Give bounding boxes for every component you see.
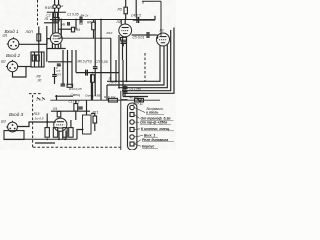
tube Л2 (119, 24, 132, 37)
wire anode row3 (51, 110, 90, 112)
wire sw c (41, 52, 43, 67)
wire legend leader 3 (134, 121, 139, 124)
wire trim b top (58, 0, 60, 5)
wire Л3 pin4 L (122, 30, 171, 91)
wire R6 down (93, 30, 95, 38)
underline legend 4 (141, 130, 174, 132)
wire bottom bus (4, 138, 77, 140)
resistor R16 (109, 98, 118, 102)
wire Л2 pin (122, 36, 124, 60)
wire HT bus top (47, 11, 66, 13)
wire aux y61 (48, 61, 72, 63)
wire R5 col up (125, 0, 127, 7)
wire C4 link (133, 19, 155, 21)
node bus2 k1 (54, 19, 56, 21)
wire cath return (55, 95, 73, 97)
wire Ra3 up (58, 110, 60, 112)
capacitor С4 (137, 17, 139, 23)
wire g3 V1 (60, 20, 62, 34)
wire block left rail (120, 91, 122, 150)
wire C4 corner (154, 16, 156, 20)
shield dashed line top (37, 0, 39, 26)
underline legend 3 (140, 124, 171, 126)
wire grid return (44, 22, 58, 24)
terminal pin 1 (130, 105, 134, 109)
wire Л4 pin b (62, 131, 64, 139)
capacitor С8 (61, 84, 66, 86)
node grid3 j (46, 121, 48, 123)
wire Л2 anode b (120, 20, 122, 25)
wire bias stub (56, 95, 58, 100)
wire grid riser (47, 39, 50, 45)
wire mid drop (75, 50, 77, 73)
wire cath drop a (62, 50, 64, 84)
wire mid v5 (122, 60, 124, 97)
wire block top (121, 99, 128, 101)
wire R7 row (58, 28, 72, 30)
capacitor С3 small (68, 22, 70, 26)
resistor R19v (74, 104, 78, 112)
wire legend leader 6 (134, 140, 141, 144)
wire R11 down (92, 82, 94, 100)
wire legend leader 7 (134, 144, 141, 146)
shield dashed line bottom-left (32, 95, 34, 149)
wire bus riser (77, 130, 84, 140)
resistor Rk4 (69, 128, 73, 138)
wire trim a (54, 8, 56, 12)
terminal pin 2 (130, 113, 134, 117)
wire cathode bus (47, 48, 66, 50)
capacitor С10 (123, 92, 128, 94)
resistor R11 (91, 75, 95, 83)
wire R5 col dn (125, 14, 127, 20)
wire cath V1 a (51, 44, 53, 49)
wire tr to РГ (91, 114, 95, 117)
wire Rk1 up (46, 114, 48, 128)
capacitor С aux (57, 64, 61, 66)
node bus j a (46, 138, 48, 140)
wire РГ dn (94, 123, 96, 131)
resistor R3 (37, 34, 41, 41)
wire Л3 pin5 L (126, 28, 174, 94)
resistor screen small (53, 18, 59, 22)
wire sw a (34, 52, 36, 67)
wire plate drop3 (94, 20, 96, 67)
wire drop C1fork (75, 20, 77, 30)
node rail j5 (115, 80, 117, 82)
transformer Тр1 (83, 115, 92, 134)
node bus2 k2 (57, 19, 59, 21)
wire legend leader 5 (134, 135, 143, 137)
wire Ш1 to grid (19, 43, 47, 45)
wire anode V1 (52, 12, 54, 33)
wire lug (137, 99, 139, 101)
wire R19 dn (75, 111, 77, 120)
terminal pin 4 (130, 128, 134, 132)
wire bias row (50, 99, 160, 101)
wire legend leader 4 (134, 128, 140, 131)
connector Ш3 (6, 121, 17, 132)
wire cap rail (124, 85, 126, 97)
resistor R17 (135, 98, 144, 102)
wire C7 dn (54, 77, 56, 84)
wire Ш2 to switch (18, 66, 31, 68)
node bus2 k3 (60, 19, 62, 21)
node rail j4 (118, 87, 120, 89)
wire drop R4 (60, 29, 62, 38)
wire mid v4b (94, 69, 96, 96)
node rail j1 (115, 80, 117, 82)
resistor R13 (67, 84, 73, 87)
connector Ш1 (7, 37, 19, 49)
wire cath drop c (71, 50, 73, 87)
wire decoupling row (58, 37, 111, 39)
wire Л2 anode (124, 20, 126, 25)
wire cath V1 c (57, 44, 59, 48)
wire cath V1 b (54, 44, 56, 48)
wire top edge (142, 0, 161, 2)
resistor R5 (124, 7, 127, 14)
underline legend 1 (146, 114, 164, 116)
switch contact strokes (37, 98, 40, 100)
resistor in box a (32, 55, 35, 61)
capacitor С5 (147, 32, 149, 38)
switch contact strokes b (42, 98, 45, 100)
wire bottom bus b (35, 142, 55, 144)
shield dashed bottom edge (33, 146, 121, 148)
wire Л4 pin a (58, 131, 60, 140)
wire Rk4 up (70, 120, 72, 128)
resistor Ra3 (57, 111, 61, 117)
tube Л3 (157, 33, 170, 46)
wire output anode riser (160, 1, 162, 36)
wire input divider (38, 27, 40, 53)
capacitor С6 (86, 70, 88, 76)
capacitor Ск Л2 (121, 42, 127, 47)
capacitor С7 (52, 75, 57, 77)
wire rail y96 (123, 96, 148, 98)
wire legend leader 2 (134, 115, 139, 119)
node rail j3 (126, 80, 128, 82)
switch box П1 (31, 52, 44, 67)
shield dashed line mid-right (144, 53, 146, 82)
node grid1 j (38, 43, 40, 45)
wire Л3 grid (157, 35, 159, 39)
wire Л3 pin3 L (119, 45, 167, 88)
underline legend 7 (142, 147, 158, 149)
capacitor С mid (93, 67, 98, 69)
trimmer C2a (53, 5, 57, 9)
wire mid v2 (118, 35, 120, 88)
wire mid v1 (110, 38, 112, 81)
wire Ш3 to grid (17, 122, 55, 127)
wire mid v3 (115, 60, 117, 81)
wire cath V1 d (60, 44, 62, 49)
wire R19 up (75, 100, 77, 103)
wire С5 to Л3 grid (149, 34, 158, 36)
node bus2 j2 (100, 19, 102, 21)
node mid j (92, 72, 94, 74)
resistor Rk Л2 (121, 37, 127, 40)
wire C7 up (54, 67, 56, 74)
wire R11 tail (90, 74, 92, 101)
terminal pin 3 (130, 120, 134, 124)
underline legend 6 (142, 141, 174, 143)
shield dashed corner top edge (29, 93, 41, 95)
terminal lug (139, 98, 142, 101)
wire Л4 pin c (65, 131, 67, 140)
resistor Rk2 (53, 128, 57, 138)
wire Л2 cathode (126, 37, 128, 81)
capacitor С12 (78, 107, 83, 109)
wire trim a top (54, 0, 56, 5)
resistor Rk3 (63, 128, 67, 138)
terminal block Ш4 (128, 103, 137, 150)
wire trim b (58, 8, 60, 12)
capacitor С9 (123, 87, 128, 89)
wire g2 V1 (57, 12, 59, 33)
wire aux left of tube (46, 26, 48, 62)
tube Л4 (54, 118, 67, 131)
resistor in box b (36, 55, 39, 61)
resistor РГ (93, 116, 97, 123)
node bus j c (64, 138, 66, 140)
wire mid coupling (76, 72, 119, 74)
wire Л2 to С5 (132, 34, 147, 36)
connector Ш2 (6, 60, 18, 72)
resistor R6 (92, 22, 96, 30)
wire rail tap (106, 85, 108, 100)
node rail j2 (122, 80, 124, 82)
wire R6 up (93, 20, 95, 23)
wire anode bus (50, 19, 155, 21)
resistor Rk1 (45, 128, 49, 138)
node screen2 (100, 37, 102, 39)
wire Л3 pin2 L (107, 46, 164, 85)
resistor R7 (71, 27, 74, 32)
node bus2 j1 (75, 19, 77, 21)
wire tr up (86, 100, 88, 115)
terminal pin 5 (130, 135, 134, 139)
wire sw b (38, 52, 40, 67)
trimmer C2b (57, 5, 61, 9)
shield box Ш3 (4, 131, 24, 140)
node bus2 j3 (124, 19, 126, 21)
wire Ш2 shield loop (13, 67, 27, 78)
wire Л3 pin1 L (107, 46, 160, 82)
tube Л1 (50, 33, 62, 45)
wire legend leader 1 (134, 108, 145, 113)
node bus j b (58, 138, 60, 140)
capacitor С1 (80, 17, 82, 23)
terminal pin 6 (130, 142, 134, 146)
wire C4 col top (135, 0, 137, 17)
underline legend 5 (144, 136, 158, 138)
underline legend 2 (141, 119, 174, 121)
wire screen V1 (54, 12, 56, 33)
wire screen drop2 (100, 20, 102, 101)
resistor anode small (54, 13, 58, 18)
wire cath drop b (67, 50, 69, 86)
